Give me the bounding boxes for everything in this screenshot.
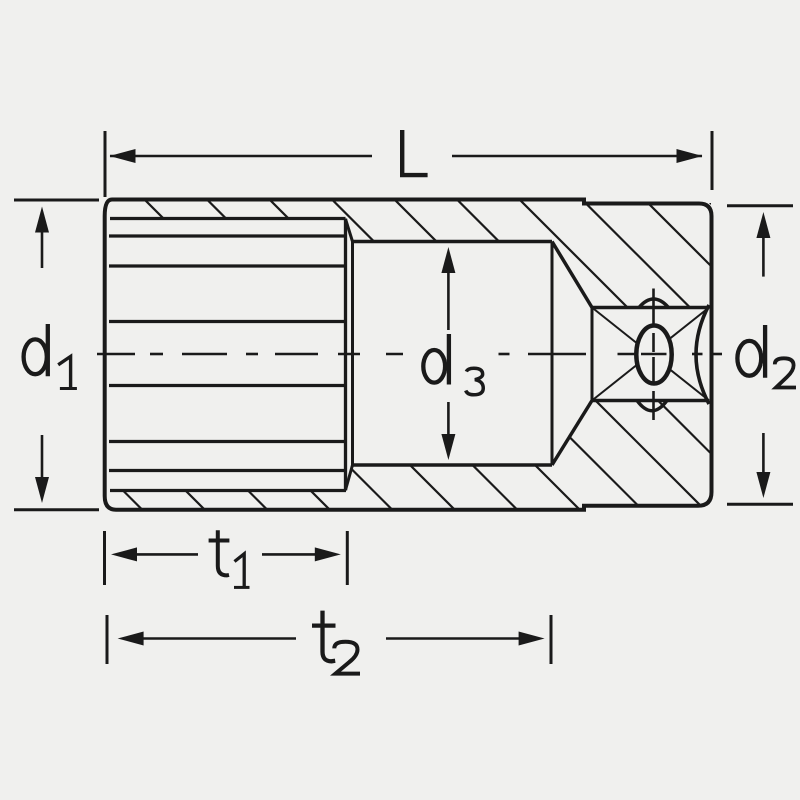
t2 arrow right bbox=[519, 632, 545, 646]
bore d3 top edge bbox=[353, 240, 553, 244]
label L bbox=[402, 130, 427, 175]
L dimension arrow right bbox=[677, 149, 703, 163]
shoulder cone bottom slant bbox=[346, 465, 353, 490]
drive end concave arc bbox=[696, 305, 709, 404]
cone top slant bbox=[552, 242, 592, 308]
label d3 bbox=[447, 334, 451, 385]
d2 extension line bottom bbox=[727, 503, 793, 506]
socket body outline bbox=[105, 200, 712, 510]
bore left edge bbox=[351, 242, 354, 466]
square diagonal BL-TR bbox=[592, 308, 709, 401]
t2 extension line left bbox=[106, 615, 109, 664]
t2 arrow left bbox=[118, 632, 144, 646]
d3 arrow down shaft bbox=[447, 402, 450, 437]
serration line 6 bbox=[109, 469, 346, 472]
d2 arrow down shaft bbox=[762, 433, 765, 474]
hatching bottom band bbox=[0, 140, 800, 580]
t1 dimension line right segment bbox=[262, 553, 315, 556]
serration line 2 bbox=[109, 264, 346, 267]
t2 dimension line right segment bbox=[386, 637, 521, 640]
drive square left edge bbox=[591, 308, 594, 401]
label t2 bbox=[323, 611, 336, 662]
label d1 bbox=[46, 324, 50, 376]
t1 extension line right bbox=[346, 531, 349, 585]
pin hole ellipse bbox=[636, 326, 671, 384]
d1 arrow down shaft bbox=[41, 435, 44, 478]
t1 dimension line left segment bbox=[135, 553, 198, 556]
L dimension extension line left bbox=[104, 131, 107, 197]
d1 extension line bottom bbox=[14, 508, 99, 511]
serration end vertical bbox=[344, 219, 347, 491]
t1 arrow right bbox=[315, 547, 341, 561]
label d2 bbox=[763, 325, 767, 378]
t1 extension line left bbox=[103, 531, 106, 585]
hatching top band bbox=[0, 140, 800, 580]
detent ball arc top bbox=[639, 299, 669, 308]
L dimension arrow left bbox=[110, 149, 136, 163]
L dimension line right segment bbox=[452, 155, 702, 158]
bore d3 right edge bbox=[551, 242, 554, 466]
t2 dimension line left segment bbox=[142, 637, 296, 640]
d2 arrow down bbox=[756, 472, 770, 498]
drive square top edge bbox=[592, 306, 709, 310]
d1 extension line top bbox=[14, 199, 99, 202]
L dimension line left segment bbox=[110, 155, 372, 158]
d3 arrow up shaft bbox=[447, 270, 450, 330]
d2 arrow up shaft bbox=[762, 236, 765, 277]
t1 arrow left bbox=[111, 547, 137, 561]
serration line 4 bbox=[109, 384, 346, 387]
serration line 1 bbox=[109, 234, 346, 237]
serration line 5 bbox=[109, 440, 346, 443]
horizontal centerline dashes bbox=[97, 353, 722, 356]
drive square bottom edge bbox=[592, 399, 709, 403]
t2 extension line right bbox=[550, 615, 553, 664]
detent ball arc bottom bbox=[637, 401, 667, 411]
vertical centerline through square bbox=[652, 289, 655, 421]
serration wall bottom line bbox=[110, 489, 346, 492]
d3 arrow down bbox=[441, 434, 455, 460]
d2 extension line top bbox=[727, 204, 793, 207]
d1 arrow down bbox=[35, 477, 49, 503]
L dimension extension line right bbox=[711, 131, 714, 190]
d2 arrow up bbox=[756, 212, 770, 238]
d1 arrow up shaft bbox=[41, 230, 44, 268]
label t1 bbox=[218, 530, 229, 575]
serration wall top line bbox=[110, 217, 346, 220]
d3 arrow up bbox=[441, 247, 455, 273]
cone bottom slant bbox=[552, 401, 592, 466]
d1 arrow up bbox=[35, 207, 49, 233]
square diagonal TL-BR bbox=[592, 308, 709, 401]
bore d3 bottom edge bbox=[353, 463, 553, 467]
serration line 3 bbox=[109, 320, 346, 323]
shoulder cone top slant bbox=[346, 219, 353, 242]
